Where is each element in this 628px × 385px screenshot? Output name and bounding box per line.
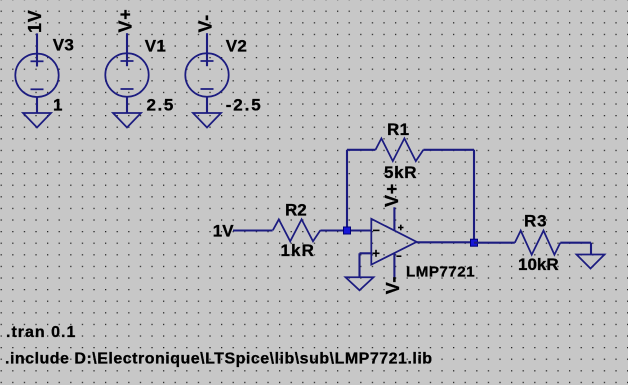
svg-text:.include D:\Electronique\LTSpi: .include D:\Electronique\LTSpice\lib\sub…: [5, 350, 433, 367]
svg-text:R3: R3: [524, 211, 547, 230]
svg-text:R2: R2: [285, 200, 307, 219]
svg-text:V+: V+: [115, 9, 135, 33]
svg-text:5kR: 5kR: [384, 163, 417, 182]
wire R2 to node N001: [320, 229, 347, 231]
svg-text:V2: V2: [226, 37, 248, 56]
voltage source V1: [105, 33, 148, 113]
wire down to output ground: [590, 243, 592, 255]
wire down to output node: [473, 150, 475, 243]
svg-text:LMP7721: LMP7721: [406, 263, 475, 280]
voltage source V2: [185, 33, 228, 113]
op-amp U1 LMP7721: [371, 219, 416, 265]
svg-text:2.5: 2.5: [147, 95, 175, 114]
ground under V1: [113, 113, 141, 128]
V- power pin wire: [393, 253, 395, 279]
wire op-amp non-inverting input left: [360, 252, 372, 254]
wire node N001 up to R1: [346, 150, 348, 231]
svg-text:1: 1: [53, 95, 62, 114]
resistor R3: [515, 231, 561, 255]
resistor R2: [273, 219, 321, 241]
svg-text:V-: V-: [383, 276, 403, 294]
svg-text:10kR: 10kR: [518, 255, 559, 274]
svg-text:1kR: 1kR: [281, 241, 316, 260]
wire R3 to output ground: [560, 242, 591, 244]
node N001 junction: [344, 227, 351, 234]
wire R1 right to corner: [423, 149, 474, 151]
svg-text:V+: V+: [382, 183, 402, 207]
svg-text:-2.5: -2.5: [226, 95, 263, 114]
wire output node to R3: [474, 242, 515, 244]
wire 1V to R2: [233, 229, 273, 231]
svg-text:1V: 1V: [213, 222, 234, 241]
svg-text:.tran 0.1: .tran 0.1: [6, 324, 76, 341]
ground under V3: [23, 113, 51, 128]
svg-text:R1: R1: [387, 120, 409, 139]
svg-text:V-: V-: [195, 14, 215, 32]
ground at non-inverting input: [346, 277, 374, 290]
ground under V2: [193, 113, 221, 128]
output node junction: [471, 239, 478, 246]
resistor R1: [376, 138, 424, 161]
wire down to ground at non-inverting input: [358, 253, 360, 277]
V+ power pin wire: [393, 207, 395, 231]
wire op-amp output to node: [417, 241, 474, 243]
svg-text:1V: 1V: [25, 10, 45, 33]
svg-text:V1: V1: [145, 37, 167, 56]
wire to R1 left: [347, 149, 376, 151]
ground at R3 output: [577, 255, 605, 269]
wire node N001 to op-amp inverting input: [347, 229, 371, 231]
voltage source V3: [15, 33, 58, 113]
svg-text:V3: V3: [53, 36, 75, 55]
